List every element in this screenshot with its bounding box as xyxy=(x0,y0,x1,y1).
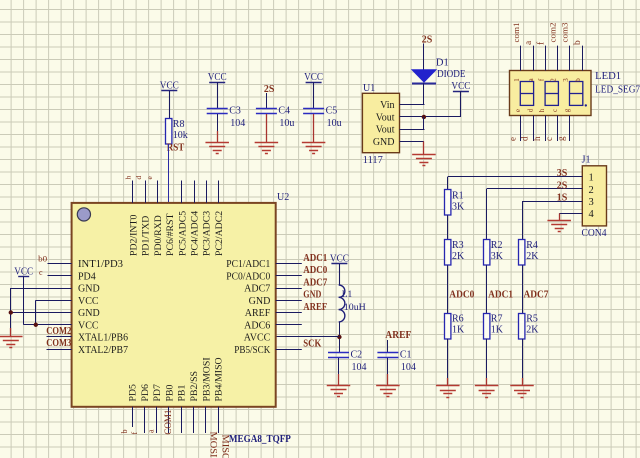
svg-text:3S: 3S xyxy=(557,168,568,179)
svg-text:104: 104 xyxy=(352,362,367,373)
svg-text:g: g xyxy=(563,108,571,112)
inductor L1 10uH xyxy=(339,285,345,322)
svg-text:VCC: VCC xyxy=(14,266,33,277)
wire U1 Vout2 xyxy=(400,129,425,131)
designator D1 xyxy=(436,58,449,69)
net label com3 xyxy=(560,23,570,43)
net label ADC1 xyxy=(488,290,513,301)
designator U2 xyxy=(277,192,289,203)
svg-text:a: a xyxy=(524,40,534,45)
svg-text:GND: GND xyxy=(303,290,321,301)
wire U2 VCC pin upper branch xyxy=(36,300,72,325)
net label d xyxy=(134,176,143,180)
svg-text:R2: R2 xyxy=(491,240,503,251)
wire L1 to C2 xyxy=(339,322,341,353)
wire LED1 top pin com3 xyxy=(569,46,571,71)
svg-text:b0: b0 xyxy=(38,254,47,263)
wire LED1 bottom pin e xyxy=(520,116,522,142)
svg-text:PD5: PD5 xyxy=(128,384,139,402)
svg-text:3: 3 xyxy=(562,78,570,82)
net label ADC7 xyxy=(524,290,549,301)
svg-text:c: c xyxy=(39,268,43,277)
wire R2 to R7 xyxy=(486,265,488,313)
svg-text:1: 1 xyxy=(589,173,594,184)
U2 right pin names xyxy=(226,259,271,356)
svg-text:LED1: LED1 xyxy=(595,71,621,82)
net label c xyxy=(39,268,43,277)
capacitor C2 104 xyxy=(328,350,367,374)
svg-text:XTAL1/PB6: XTAL1/PB6 xyxy=(78,333,128,344)
VCC power symbol right of U1 xyxy=(451,81,470,117)
svg-text:ADC7: ADC7 xyxy=(524,290,549,301)
svg-text:h: h xyxy=(123,176,132,180)
svg-text:R3: R3 xyxy=(452,240,464,251)
svg-text:PC6/#RST: PC6/#RST xyxy=(165,214,176,256)
net label ADC0 right of U2 xyxy=(303,265,327,276)
value DIODE xyxy=(437,69,466,80)
svg-text:Vout: Vout xyxy=(376,112,395,123)
svg-text:VCC: VCC xyxy=(78,296,99,307)
svg-text:com1: com1 xyxy=(511,23,521,43)
wire COM2 to XTAL1/PB6 xyxy=(47,336,72,338)
net label g xyxy=(556,136,566,141)
svg-text:2K: 2K xyxy=(526,251,539,262)
resistor R6 1K xyxy=(445,314,466,340)
pin stub top PD0/RXD xyxy=(157,181,159,203)
wire LED1 top pin a xyxy=(533,46,535,71)
net label a xyxy=(524,40,534,45)
wire right pin row GND xyxy=(276,300,302,302)
svg-text:GND: GND xyxy=(78,308,100,319)
wire diode to U1 Vin xyxy=(400,104,425,106)
svg-text:GND: GND xyxy=(249,296,271,307)
svg-text:GND: GND xyxy=(373,137,395,148)
svg-text:AVCC: AVCC xyxy=(244,333,271,344)
junction VCC left xyxy=(34,323,38,327)
net label 3S xyxy=(557,168,568,179)
svg-text:PD0/RXD: PD0/RXD xyxy=(153,215,164,256)
svg-text:R5: R5 xyxy=(526,314,538,325)
svg-text:AREF: AREF xyxy=(303,302,327,313)
wire C2 down xyxy=(338,358,340,374)
net label 2S at J1 xyxy=(557,180,568,191)
svg-text:MOSI: MOSI xyxy=(207,432,217,458)
net label a xyxy=(147,429,156,433)
junction GND left xyxy=(9,310,13,314)
net label MISO xyxy=(219,435,229,458)
svg-text:g: g xyxy=(556,136,566,141)
net label MOSI xyxy=(207,432,217,458)
svg-text:4: 4 xyxy=(589,209,595,220)
svg-text:XTAL2/PB7: XTAL2/PB7 xyxy=(78,345,128,356)
svg-text:3K: 3K xyxy=(491,251,504,262)
VCC power symbol above L1 xyxy=(330,254,349,285)
svg-text:ADC7: ADC7 xyxy=(303,277,327,288)
resistor R1 3K xyxy=(445,190,466,216)
wire LED1 top pin com2 xyxy=(557,46,559,71)
ground below U1 xyxy=(412,141,436,165)
wire LED1 top pin f xyxy=(545,46,547,71)
junction at U1 Vout xyxy=(422,115,426,119)
svg-text:PB5/SCK: PB5/SCK xyxy=(234,345,271,356)
svg-text:PC1/ADC1: PC1/ADC1 xyxy=(226,259,270,270)
svg-text:1K: 1K xyxy=(452,325,465,336)
pin stub top PC4/ADC4 xyxy=(194,181,196,203)
net label ADC7 right of U2 xyxy=(303,277,327,288)
svg-text:MISO: MISO xyxy=(219,435,229,458)
wire COM3 to XTAL2/PB7 xyxy=(47,349,72,351)
pin stub top PC3/ADC3 xyxy=(206,181,208,203)
net label f xyxy=(535,41,546,45)
net label e xyxy=(507,137,517,141)
svg-text:PD2/INT0: PD2/INT0 xyxy=(129,215,140,256)
svg-text:R4: R4 xyxy=(526,240,538,251)
svg-text:a: a xyxy=(147,429,156,433)
value LED_SEG7 xyxy=(595,85,640,96)
net label AREF xyxy=(385,330,411,341)
svg-text:ADC1: ADC1 xyxy=(303,253,327,264)
svg-text:PB4/MISO: PB4/MISO xyxy=(214,357,225,401)
svg-text:J1: J1 xyxy=(582,154,591,165)
wire b0 to INT1/PD3 xyxy=(48,263,72,265)
svg-text:R8: R8 xyxy=(173,119,185,130)
value MEGA8_TQFP xyxy=(229,433,291,445)
net label ADC1 right of U2 xyxy=(303,253,327,264)
pin stub top PC2/ADC2 xyxy=(218,181,220,203)
svg-text:PC0/ADC0: PC0/ADC0 xyxy=(226,271,270,282)
U2 top pin names xyxy=(129,211,225,256)
svg-text:ADC1: ADC1 xyxy=(488,290,513,301)
svg-text:b: b xyxy=(573,40,583,45)
wire LED1 top pin b xyxy=(582,46,584,71)
svg-text:L1: L1 xyxy=(342,290,353,300)
svg-text:com3: com3 xyxy=(560,23,570,43)
svg-text:2: 2 xyxy=(589,185,594,196)
wire LED1 bottom pin d xyxy=(533,116,535,142)
net label COM2 xyxy=(46,326,71,337)
net label b xyxy=(120,430,129,434)
net label 2S above D1 xyxy=(422,35,433,46)
wire right pin row ADC7 xyxy=(276,288,302,290)
VCC power symbol left of U2 xyxy=(14,266,33,277)
wire 2S to D1 anode xyxy=(423,44,425,70)
ground below R6 xyxy=(436,378,460,398)
svg-text:C2: C2 xyxy=(351,350,363,361)
svg-text:PB1: PB1 xyxy=(177,385,188,402)
svg-text:C1: C1 xyxy=(400,350,412,361)
resistor R3 2K xyxy=(445,240,466,266)
svg-text:SCK: SCK xyxy=(303,339,322,350)
svg-text:DIODE: DIODE xyxy=(437,69,466,80)
svg-text:f: f xyxy=(130,432,139,435)
pin stub bottom PB3/MOSI xyxy=(205,407,207,433)
svg-text:ADC7: ADC7 xyxy=(244,284,270,295)
designator U1 xyxy=(363,83,375,94)
svg-text:3: 3 xyxy=(589,197,594,208)
svg-text:2K: 2K xyxy=(526,325,539,336)
svg-text:COM3: COM3 xyxy=(46,338,71,349)
svg-text:PD6: PD6 xyxy=(140,384,151,402)
svg-text:COM2: COM2 xyxy=(46,326,71,337)
net label RST xyxy=(167,143,185,154)
wire R3 to R6 xyxy=(447,265,449,313)
wire right pin row PC0/ADC0 xyxy=(276,275,302,277)
pin stub bottom PB4/MISO xyxy=(218,407,220,433)
svg-text:PC5/ADC5: PC5/ADC5 xyxy=(177,211,188,256)
junction AVCC node xyxy=(337,335,341,339)
svg-text:c: c xyxy=(551,109,559,112)
net label b0 xyxy=(38,254,47,263)
svg-text:e: e xyxy=(507,137,517,141)
net label h xyxy=(532,136,542,141)
wire D1 cathode down xyxy=(423,83,425,104)
svg-text:1: 1 xyxy=(513,78,521,82)
svg-text:10uH: 10uH xyxy=(344,303,366,313)
svg-text:MEGA8_TQFP: MEGA8_TQFP xyxy=(229,433,291,445)
pin stub top PD1/TXD xyxy=(145,181,147,203)
svg-text:PB0: PB0 xyxy=(164,385,175,402)
designator L1 xyxy=(342,290,353,300)
wire right pin row AREF xyxy=(276,312,302,314)
svg-text:f: f xyxy=(535,41,546,45)
svg-text:e: e xyxy=(145,176,154,180)
svg-text:U2: U2 xyxy=(277,192,289,203)
wire LED1 top pin com1 xyxy=(520,46,522,71)
svg-text:C5: C5 xyxy=(326,106,338,117)
wire VCC left to U2 VCC pin xyxy=(24,277,72,325)
wire R1 to R3 xyxy=(447,215,449,239)
svg-text:PC2/ADC2: PC2/ADC2 xyxy=(214,211,225,256)
net label AREF right of U2 xyxy=(303,302,327,313)
svg-text:C4: C4 xyxy=(278,106,290,117)
svg-text:ADC0: ADC0 xyxy=(449,290,474,301)
svg-text:COM1: COM1 xyxy=(163,410,173,435)
svg-text:d: d xyxy=(520,136,530,141)
svg-text:U1: U1 xyxy=(363,83,375,94)
svg-text:VCC: VCC xyxy=(208,72,227,83)
wire 2S down to R2 xyxy=(486,189,488,240)
wire C3 to ground xyxy=(217,114,219,131)
value 1117 xyxy=(363,155,383,166)
op-amp U2 MEGA8_TQFP body xyxy=(72,203,276,407)
wire net 1S from J1 pin3 xyxy=(522,201,582,203)
pin stub bottom PD5 xyxy=(132,407,134,427)
ground below C1 xyxy=(376,374,400,397)
net label f xyxy=(130,432,139,435)
svg-text:R7: R7 xyxy=(491,314,503,325)
net label 2S above C4 xyxy=(264,84,275,95)
regulator U1 body xyxy=(362,93,399,152)
U2 left pin names xyxy=(78,259,128,356)
svg-text:PD1/TXD: PD1/TXD xyxy=(141,216,152,256)
VCC power symbol above C5 xyxy=(304,72,323,109)
wire Vout node down xyxy=(423,117,425,129)
svg-text:h: h xyxy=(538,108,546,112)
pin stub bottom PB1 xyxy=(181,407,183,433)
svg-text:PC3/ADC3: PC3/ADC3 xyxy=(202,211,213,256)
svg-text:d: d xyxy=(526,108,534,112)
net label d xyxy=(520,136,530,141)
wire R4 to R5 xyxy=(522,265,524,313)
pin stub bottom PD7 xyxy=(156,407,158,433)
wire 2S to C4 xyxy=(266,93,268,109)
net label 1S xyxy=(557,193,568,204)
svg-text:com2: com2 xyxy=(548,23,558,43)
svg-text:VCC: VCC xyxy=(451,81,470,92)
svg-text:2: 2 xyxy=(550,78,558,82)
svg-text:1S: 1S xyxy=(557,193,568,204)
wire U2 GND2 pin xyxy=(11,312,72,314)
svg-text:2S: 2S xyxy=(557,180,568,191)
net label SCK right of U2 xyxy=(303,339,322,350)
wire right pin row PC1/ADC1 xyxy=(276,263,302,265)
wire c to PD4 xyxy=(48,275,72,277)
svg-text:1117: 1117 xyxy=(363,155,383,166)
resistor R2 3K xyxy=(484,240,504,266)
ground below R7 xyxy=(475,378,499,398)
svg-text:PB3/MOSI: PB3/MOSI xyxy=(201,357,212,401)
capacitor C5 10u xyxy=(303,106,342,130)
wire LED1 bottom pin c xyxy=(557,116,559,142)
svg-text:ADC6: ADC6 xyxy=(244,320,270,331)
svg-text:RST: RST xyxy=(167,143,185,154)
pin stub bottom PD6 xyxy=(144,407,146,433)
svg-text:PB2/SS: PB2/SS xyxy=(189,371,200,402)
wire LED1 bottom pin g xyxy=(569,116,571,142)
svg-text:VCC: VCC xyxy=(304,72,323,83)
wire net 3S from J1 pin1 xyxy=(448,176,583,178)
svg-text:GND: GND xyxy=(78,284,100,295)
svg-text:INT1/PD3: INT1/PD3 xyxy=(78,259,123,270)
capacitor C1 104 xyxy=(377,350,416,374)
net label com1 xyxy=(511,23,521,43)
connector J1 body xyxy=(582,166,606,226)
svg-text:AREF: AREF xyxy=(245,308,271,319)
svg-text:d: d xyxy=(134,176,143,180)
resistor R4 2K xyxy=(519,240,540,266)
ground below R5 xyxy=(510,378,534,398)
svg-text:c: c xyxy=(544,137,554,141)
wire AREF to C1 xyxy=(387,340,389,353)
svg-text:C3: C3 xyxy=(229,106,241,117)
net label COM3 xyxy=(46,338,71,349)
wire C1 down xyxy=(387,358,389,374)
svg-text:h: h xyxy=(532,136,542,141)
svg-text:104: 104 xyxy=(230,118,245,129)
svg-text:10u: 10u xyxy=(279,118,294,129)
net label c xyxy=(544,137,554,141)
svg-text:ADC0: ADC0 xyxy=(303,265,327,276)
wire U1 GND xyxy=(400,141,424,143)
svg-text:CON4: CON4 xyxy=(582,228,607,239)
svg-text:AREF: AREF xyxy=(385,330,411,341)
wire U2 GND pin to ground xyxy=(11,288,72,328)
wire AVCC pin to node xyxy=(276,336,340,338)
U2 bottom pin names xyxy=(128,357,225,401)
designator J1 xyxy=(582,154,591,165)
ground below C4 xyxy=(255,114,279,154)
svg-text:LED_SEG7: LED_SEG7 xyxy=(595,85,640,96)
ground left of U2 xyxy=(0,328,23,348)
svg-text:Vin: Vin xyxy=(380,100,394,111)
wire 3S down to R1 xyxy=(447,177,449,190)
svg-text:e: e xyxy=(514,109,522,112)
VCC power symbol above R8 xyxy=(160,81,179,119)
designator LED1 xyxy=(595,71,621,82)
net label b xyxy=(573,40,583,45)
svg-text:R6: R6 xyxy=(452,314,464,325)
svg-text:VCC: VCC xyxy=(78,320,99,331)
ground below C3 xyxy=(205,131,229,154)
pin stub top PD2/INT0 xyxy=(132,181,134,203)
ground below C5 xyxy=(302,114,326,154)
resistor R8 10k xyxy=(166,119,188,145)
svg-text:PD4: PD4 xyxy=(78,271,96,282)
svg-text:PD7: PD7 xyxy=(152,384,163,402)
svg-text:1K: 1K xyxy=(491,325,504,336)
wire right pin row ADC6 xyxy=(276,324,302,326)
capacitor C4 10u xyxy=(256,106,295,130)
VCC power symbol above C3 xyxy=(208,72,227,109)
svg-text:2K: 2K xyxy=(452,251,465,262)
wire J1 pin4 to ground xyxy=(559,213,582,215)
svg-text:Vout: Vout xyxy=(376,125,395,136)
net label h xyxy=(123,176,132,180)
pin stub bottom PB2/SS xyxy=(193,407,195,433)
svg-text:104: 104 xyxy=(401,362,416,373)
wire right pin row PB5/SCK xyxy=(276,349,302,351)
svg-text:b: b xyxy=(574,78,582,82)
wire R6 to ground xyxy=(447,339,449,378)
7-segment display LED1 body xyxy=(510,71,592,116)
value 10uH xyxy=(344,303,366,313)
svg-text:PC4/ADC4: PC4/ADC4 xyxy=(190,211,201,256)
net label com2 xyxy=(548,23,558,43)
wire LED1 bottom pin h xyxy=(545,116,547,142)
wire U1 Vout1 to VCC node xyxy=(400,116,461,118)
net label ADC0 xyxy=(449,290,474,301)
svg-text:10k: 10k xyxy=(173,130,188,141)
svg-text:2S: 2S xyxy=(264,84,275,95)
pin stub top PC5/ADC5 xyxy=(181,181,183,203)
resistor R7 1K xyxy=(484,314,504,340)
net label COM1 xyxy=(163,410,173,435)
ground below J1 pin4 xyxy=(547,213,571,231)
net label e xyxy=(145,176,154,180)
wire RST from R8 to U2 pin PC6 xyxy=(168,144,170,203)
diode D1 xyxy=(412,70,436,84)
svg-text:R1: R1 xyxy=(452,190,464,201)
wire R5 to ground xyxy=(522,339,524,378)
svg-text:b: b xyxy=(120,430,129,434)
svg-text:D1: D1 xyxy=(436,58,449,69)
wire 1S down to R4 xyxy=(522,201,524,240)
resistor R5 2K xyxy=(519,314,540,340)
pin stub bottom PB0 xyxy=(168,407,170,433)
wire R7 to ground xyxy=(486,339,488,378)
wire net 2S from J1 pin2 xyxy=(487,188,583,190)
ground below C2 xyxy=(327,374,351,397)
capacitor C3 104 xyxy=(207,106,246,130)
svg-text:3K: 3K xyxy=(452,201,465,212)
svg-text:10u: 10u xyxy=(327,118,342,129)
value CON4 xyxy=(582,228,607,239)
net label GND right of U2 xyxy=(303,290,321,301)
